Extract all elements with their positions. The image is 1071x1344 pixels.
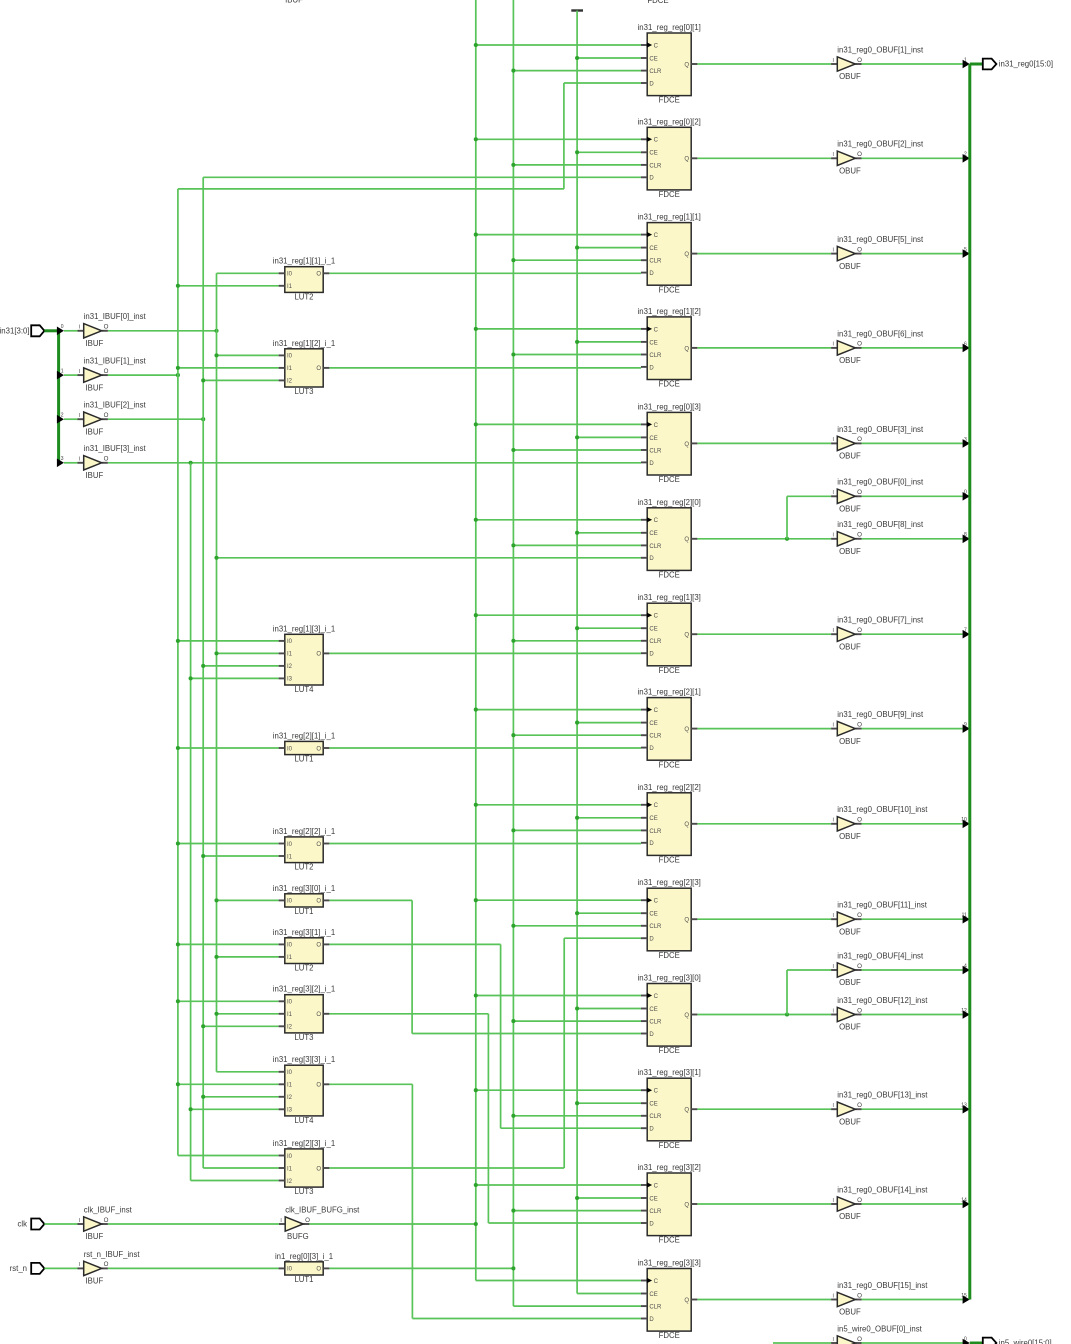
svg-text:O: O [857,1292,862,1299]
wire Q of in31_reg_reg[0][1] to OBUF [697,63,831,65]
svg-text:in31_reg0_OBUF[14]_inst: in31_reg0_OBUF[14]_inst [837,1185,928,1194]
wire Q of in31_reg_reg[0][3] to OBUF [697,442,831,444]
wire in31_reg[2][1]_i_1 O to D of in31_reg_reg[2][1] [329,747,641,749]
junction I1 in31_reg[3][3]_i_1 [176,1082,180,1086]
svg-text:in31_reg[3][2]_i_1: in31_reg[3][2]_i_1 [273,985,335,994]
wire clk to C of in31_reg_reg[0][1] [476,44,641,46]
svg-text:I: I [79,325,80,331]
svg-text:10: 10 [961,817,967,823]
svg-text:O: O [316,1083,321,1089]
buffer in31_IBUF[0]_inst IBUF [78,312,147,348]
wire clk to C of in31_reg_reg[2][2] [476,804,641,806]
wire in31_IBUF[0] to D of in31_reg_reg[2][0] [217,557,642,559]
svg-text:in31_reg0[15:0]: in31_reg0[15:0] [999,60,1053,69]
wire input I2 of in31_reg[1][2]_i_1 [203,379,278,381]
svg-text:in31_reg_reg[3][3]: in31_reg_reg[3][3] [638,1259,701,1268]
svg-text:I: I [280,1218,281,1224]
svg-text:O: O [857,57,862,64]
bus arrow bit 12 [963,1010,970,1019]
wire in31_reg[1][3]_i_1 O to D of in31_reg_reg[1][3] [329,652,641,654]
wire CE to CE of in31_reg_reg[2][2] [577,817,641,819]
svg-text:3: 3 [61,456,64,462]
svg-text:IBUF: IBUF [285,0,303,5]
svg-text:in31_reg_reg[0][3]: in31_reg_reg[0][3] [638,402,701,411]
svg-text:D: D [649,746,654,752]
svg-text:O: O [104,1217,109,1224]
svg-text:D: D [649,937,654,943]
bus arrow bit 6 [963,344,970,353]
svg-text:CE: CE [649,56,657,62]
svg-text:0: 0 [61,324,64,330]
svg-text:O: O [857,721,862,728]
wire input I0 of in31_reg[1][1]_i_1 [217,272,279,274]
buffer clk_IBUF_BUFG_inst BUFG [279,1205,360,1241]
wire input I3 of in31_reg[1][3]_i_1 [191,677,279,679]
wire Q of in31_reg_reg[3][0] to OBUF [697,1014,831,1016]
svg-text:0: 0 [964,1336,967,1342]
junction Q[3][0] split to OBUF[4] [785,1012,789,1016]
svg-text:LUT1: LUT1 [294,1275,313,1284]
svg-text:CE: CE [649,1007,657,1013]
wire in31_reg[1][1]_i_1 O to D of in31_reg_reg[1][1] [329,272,641,274]
svg-text:in31_reg_reg[3][2]: in31_reg_reg[3][2] [638,1163,701,1172]
wire CLR to CLR of in31_reg_reg[3][3] [513,1305,641,1307]
svg-text:Q: Q [684,822,689,828]
junction BUFG out / clk vertical [474,1222,478,1226]
wire input I0 of in31_reg[2][3]_i_1 [178,1155,279,1157]
junction CLR / CLR [3][1] [511,1114,515,1118]
wire OBUF[1] out to bus [862,63,963,65]
svg-text:in31_reg_reg[1][2]: in31_reg_reg[1][2] [638,307,701,316]
svg-text:OBUF: OBUF [839,262,861,271]
svg-text:O: O [857,627,862,634]
junction clk / C [0][2] [474,137,478,141]
svg-text:C: C [654,803,659,809]
svg-text:O: O [857,1336,862,1343]
svg-text:CE: CE [649,627,657,633]
svg-text:O: O [857,151,862,158]
wire in31_reg[3][2]_i_1 O route to D of in31_reg_reg[3][2] [329,1013,488,1015]
wire clk_IBUF to BUFG [108,1223,279,1225]
svg-text:CE: CE [649,246,657,252]
svg-text:I2: I2 [287,664,293,670]
LUT in31_reg[2][2]_i_1 LUT2 [273,827,335,872]
wire OBUF[0] out to bus [862,495,963,497]
svg-text:3: 3 [964,437,967,443]
svg-text:C: C [654,518,659,524]
wire CLR to CLR of in31_reg_reg[2][3] [513,925,641,927]
svg-text:LUT2: LUT2 [294,964,313,973]
wire CLR to CLR of in31_reg_reg[3][1] [513,1115,641,1117]
wire Q of in31_reg_reg[1][2] to OBUF [697,347,831,349]
svg-text:O: O [104,368,109,375]
svg-text:in31_reg0_OBUF[2]_inst: in31_reg0_OBUF[2]_inst [837,140,924,149]
svg-text:clk: clk [17,1220,27,1229]
svg-text:LUT1: LUT1 [294,907,313,916]
wire Q of in31_reg_reg[2][3] to OBUF [697,918,831,920]
flip-flop in31_reg_reg[1][1] FDCE [638,213,701,295]
svg-text:in31_reg_reg[0][2]: in31_reg_reg[0][2] [638,117,701,126]
svg-text:IBUF: IBUF [86,339,104,348]
buffer in31_reg0_OBUF[4]_inst OBUF [831,951,924,987]
bus tap arrow bit 1 [57,371,64,380]
svg-text:O: O [305,1217,310,1224]
buffer in31_reg0_OBUF[6]_inst OBUF [831,329,924,365]
wire in31_IBUF[2] vertical [202,177,204,1168]
LUT in31_reg[2][3]_i_1 LUT3 [273,1139,335,1196]
buffer in31_reg0_OBUF[11]_inst OBUF [831,901,928,937]
buffer in31_IBUF[3]_inst IBUF [78,444,147,480]
svg-text:I0: I0 [287,842,293,848]
wire clk to C of in31_reg_reg[1][2] [476,328,641,330]
junction CE / CE [2][0] [575,531,579,535]
wire in31_IBUF[1] out [108,374,178,376]
wire OBUF[2] out to bus [862,157,963,159]
svg-text:C: C [654,43,659,49]
wire clk to C of in31_reg_reg[3][2] [476,1184,641,1186]
svg-text:in31_reg0_OBUF[1]_inst: in31_reg0_OBUF[1]_inst [837,45,924,54]
wire OBUF[15] out to bus [862,1299,963,1301]
junction CE / CE [1][3] [575,626,579,630]
wire input I0 of in31_reg[3][1]_i_1 [178,943,279,945]
svg-text:IBUF: IBUF [86,1277,104,1286]
wire input I2 of in31_reg[2][3]_i_1 [191,1180,279,1182]
junction clk / C [2][1] [474,708,478,712]
svg-text:D: D [649,1127,654,1133]
svg-text:OBUF: OBUF [839,1117,861,1126]
svg-text:CE: CE [649,1292,657,1298]
svg-text:FDCE: FDCE [659,1141,680,1150]
wire input I0 of in31_reg[2][2]_i_1 [178,843,279,845]
svg-text:FDCE: FDCE [659,951,680,960]
svg-text:I0: I0 [287,1000,293,1006]
svg-text:O: O [316,272,321,278]
svg-text:in31_reg[3][0]_i_1: in31_reg[3][0]_i_1 [273,884,335,893]
svg-text:in31_reg_reg[2][1]: in31_reg_reg[2][1] [638,688,701,697]
svg-text:LUT2: LUT2 [294,863,313,872]
flip-flop in31_reg_reg[2][2] FDCE [638,783,701,865]
junction clk / C [3][0] [474,993,478,997]
svg-text:I: I [833,628,834,634]
svg-text:in31_reg0_OBUF[13]_inst: in31_reg0_OBUF[13]_inst [837,1091,928,1100]
svg-text:I: I [79,1262,80,1268]
bus arrow bit 14 [963,1200,970,1209]
svg-text:FDCE: FDCE [647,0,668,5]
svg-text:in31_reg_reg[0][1]: in31_reg_reg[0][1] [638,23,701,32]
svg-text:I: I [833,58,834,64]
wire Q of in31_reg_reg[2][2] to OBUF [697,823,831,825]
wire CE to CE of in31_reg_reg[0][3] [577,436,641,438]
bus arrow bit 11 [963,915,970,924]
wire clk port to IBUF [44,1223,77,1225]
svg-text:in31_IBUF[3]_inst: in31_IBUF[3]_inst [84,444,147,453]
wire input I0 of in31_reg[1][3]_i_1 [178,640,279,642]
junction I0 in31_reg[1][3]_i_1 [176,639,180,643]
wire CE to CE of in31_reg_reg[1][2] [577,341,641,343]
svg-text:CE: CE [649,531,657,537]
wire input I1 of in31_reg[1][2]_i_1 [178,367,279,369]
svg-text:I0: I0 [287,1070,293,1076]
bus arrow bit 4 [963,966,970,975]
junction CE / CE [1][2] [575,340,579,344]
buffer in31_reg0_OBUF[10]_inst OBUF [831,805,928,841]
svg-text:I: I [833,342,834,348]
wire CLR to CLR of in31_reg_reg[2][1] [513,734,641,736]
svg-text:D: D [649,1221,654,1227]
wire clk to C of in31_reg_reg[3][3] [476,1280,641,1282]
svg-text:I: I [79,369,80,375]
svg-text:C: C [654,1183,659,1189]
svg-text:I3: I3 [287,1108,293,1114]
input port rst_n [10,1263,45,1274]
wire Q of in31_reg_reg[1][3] to OBUF [697,633,831,635]
junction CLR / CLR [2][3] [511,924,515,928]
svg-text:rst_n: rst_n [10,1264,27,1273]
wire OBUF[14] out to bus [862,1203,963,1205]
svg-text:FDCE: FDCE [659,1046,680,1055]
wire CLR to CLR of in31_reg_reg[3][0] [513,1020,641,1022]
svg-text:rst_n_IBUF_inst: rst_n_IBUF_inst [84,1250,141,1259]
junction CE / CE [0][1] [575,56,579,60]
svg-text:I: I [833,722,834,728]
junction I0 in31_reg[3][2]_i_1 [176,999,180,1003]
svg-text:11: 11 [962,913,967,919]
svg-text:O: O [316,943,321,949]
junction I0 in31_reg[1][2]_i_1 [214,353,218,357]
wire in31_IBUF[2] out [108,418,203,420]
wire input I3 of in31_reg[3][3]_i_1 [191,1108,279,1110]
wire Q of in31_reg_reg[2][0] to OBUF [697,538,831,540]
svg-text:C: C [654,423,659,429]
svg-text:CLR: CLR [649,734,662,740]
wire rst_n port to IBUF [44,1267,77,1269]
svg-text:CLR: CLR [649,163,662,169]
wire CE to CE of in31_reg_reg[2][3] [577,912,641,914]
svg-text:I0: I0 [287,1154,293,1160]
svg-text:I3: I3 [287,677,293,683]
svg-text:I: I [833,964,834,970]
wire D[0][1] vertical [563,83,565,189]
power bar VCC tie for CE net [571,9,583,11]
svg-text:9: 9 [964,722,967,728]
wire CLR to CLR of in31_reg_reg[2][2] [513,829,641,831]
svg-text:IBUF: IBUF [86,471,104,480]
svg-text:in31_reg0_OBUF[3]_inst: in31_reg0_OBUF[3]_inst [837,425,924,434]
wire OBUF[6] out to bus [862,347,963,349]
wire clk to C of in31_reg_reg[3][1] [476,1089,641,1091]
svg-text:CLR: CLR [649,1114,662,1120]
svg-text:FDCE: FDCE [659,856,680,865]
wire in31_reg[1][2]_i_1 O to D of in31_reg_reg[1][2] [329,367,641,369]
wire in31_IBUF[1] to D of in31_reg_reg[0][1] horizontal [178,188,564,190]
junction I0 in31_reg[2][2]_i_1 [176,841,180,845]
svg-text:CE: CE [649,816,657,822]
svg-text:OBUF: OBUF [839,737,861,746]
svg-text:FDCE: FDCE [659,96,680,105]
junction I1 in31_reg[1][3]_i_1 [214,651,218,655]
svg-text:LUT1: LUT1 [294,755,313,764]
svg-text:O: O [857,341,862,348]
svg-text:in31_reg_reg[3][0]: in31_reg_reg[3][0] [638,974,701,983]
svg-text:OBUF: OBUF [839,927,861,936]
bus wire in31_reg0[15:0] vertical [968,64,971,1300]
svg-text:FDCE: FDCE [659,475,680,484]
wire Q of in31_reg_reg[1][1] to OBUF [697,253,831,255]
junction CLR / CLR [0][2] [511,163,515,167]
svg-text:O: O [857,436,862,443]
junction CLR / CLR [2][1] [511,733,515,737]
buffer in31_reg0_OBUF[2]_inst OBUF [831,140,924,176]
bus arrow bit 7 [963,630,970,639]
svg-text:OBUF: OBUF [839,356,861,365]
svg-text:CE: CE [649,1102,657,1108]
wire input I1 of in31_reg[1][3]_i_1 [217,652,279,654]
bus arrow bit 2 [963,154,970,163]
svg-text:OBUF: OBUF [839,1308,861,1317]
junction I1 in31_reg[2][2]_i_1 [201,854,205,858]
wire rst (CLR) net vertical [512,0,514,1306]
junction clk / C [1][1] [474,233,478,237]
svg-text:I0: I0 [287,746,293,752]
svg-text:in31_reg[3][1]_i_1: in31_reg[3][1]_i_1 [273,928,335,937]
LUT in31_reg[3][0]_i_1 LUT1 [273,884,335,916]
svg-text:Q: Q [684,62,689,68]
junction CLR / CLR [0][3] [511,448,515,452]
wire CE to CE of in31_reg_reg[3][1] [577,1102,641,1104]
wire CE net vertical [576,11,578,1294]
svg-text:Q: Q [684,157,689,163]
junction I2 in31_reg[1][2]_i_1 [201,378,205,382]
bus arrow bit 9 [963,724,970,733]
svg-text:I0: I0 [287,272,293,278]
svg-text:in31_reg0_OBUF[10]_inst: in31_reg0_OBUF[10]_inst [837,805,928,814]
svg-text:I2: I2 [287,1025,293,1031]
wire input I2 of in31_reg[3][2]_i_1 [203,1025,278,1027]
wire CE to CE of in31_reg_reg[2][1] [577,722,641,724]
svg-text:O: O [316,366,321,372]
svg-text:13: 13 [961,1103,967,1109]
junction clk / C [0][3] [474,422,478,426]
wire OBUF[9] out to bus [862,728,963,730]
svg-text:FDCE: FDCE [659,1331,680,1340]
junction I0 in31_reg[3][0]_i_1 [214,898,218,902]
wire Q of in31_reg_reg[3][3] to OBUF [697,1299,831,1301]
wire input I0 of in31_reg[3][2]_i_1 [178,1000,279,1002]
junction LUT1 out / CLR vertical [511,1266,515,1270]
svg-text:I: I [833,1337,834,1343]
bus arrow bit 5 [963,249,970,258]
svg-text:O: O [857,1102,862,1109]
svg-text:Q: Q [684,442,689,448]
wire clk to C of in31_reg_reg[1][3] [476,614,641,616]
svg-text:in31_reg0_OBUF[4]_inst: in31_reg0_OBUF[4]_inst [837,951,924,960]
svg-text:CLR: CLR [649,639,662,645]
buffer in31_reg0_OBUF[7]_inst OBUF [831,616,924,652]
wire OBUF[8] out to bus [862,538,963,540]
junction CLR / CLR [1][2] [511,352,515,356]
buffer in31_IBUF[2]_inst IBUF [78,401,147,437]
svg-text:LUT3: LUT3 [294,1187,313,1196]
svg-text:I: I [833,818,834,824]
svg-text:CLR: CLR [649,924,662,930]
wire OBUF[10] out to bus [862,823,963,825]
wire D[0][1] to pin [564,82,641,84]
wire OBUF[7] out to bus [862,633,963,635]
svg-text:I: I [833,490,834,496]
wire CE to CE of in31_reg_reg[3][2] [577,1197,641,1199]
svg-text:in31_reg_reg[2][2]: in31_reg_reg[2][2] [638,783,701,792]
svg-text:D: D [649,1317,654,1323]
svg-text:in31_reg_reg[2][3]: in31_reg_reg[2][3] [638,878,701,887]
svg-text:O: O [104,456,109,463]
svg-text:LUT4: LUT4 [294,1116,314,1125]
LUT in31_reg[1][3]_i_1 LUT4 [273,624,335,694]
svg-text:LUT2: LUT2 [294,293,313,302]
svg-text:in31_reg0_OBUF[7]_inst: in31_reg0_OBUF[7]_inst [837,616,924,625]
wire clk to C of in31_reg_reg[1][1] [476,234,641,236]
svg-text:C: C [654,327,659,333]
svg-text:Q: Q [684,252,689,258]
wire CE to CE of in31_reg_reg[1][3] [577,627,641,629]
svg-text:5: 5 [964,247,967,253]
svg-text:in31_reg_reg[1][1]: in31_reg_reg[1][1] [638,213,701,222]
bus wire in31[3:0] vertical [57,331,60,463]
wire clk to C of in31_reg_reg[0][2] [476,138,641,140]
svg-text:D: D [649,461,654,467]
svg-text:C: C [654,138,659,144]
buffer in31_reg0_OBUF[5]_inst OBUF [831,235,924,271]
svg-text:OBUF: OBUF [839,505,861,514]
wire CLR to CLR of in31_reg_reg[1][1] [513,259,641,261]
svg-text:O: O [857,246,862,253]
wire CE to CE of in31_reg_reg[3][3] [577,1293,641,1295]
svg-text:O: O [104,1261,109,1268]
wire clk net vertical [475,0,477,1281]
wire in1_reg[0][3]_i_1 O to CLR vertical [329,1267,513,1269]
junction clk / C [1][3] [474,613,478,617]
bus tap arrow bit 2 [57,415,64,424]
svg-text:O: O [857,1007,862,1014]
junction CE / CE [1][1] [575,246,579,250]
buffer in31_reg0_OBUF[15]_inst OBUF [831,1281,928,1317]
wire clk to C of in31_reg_reg[2][3] [476,899,641,901]
svg-text:in31_reg[2][3]_i_1: in31_reg[2][3]_i_1 [273,1139,335,1148]
wire input I1 of in31_reg[3][1]_i_1 [217,956,279,958]
svg-text:O: O [857,532,862,539]
buffer clk_IBUF_inst IBUF [78,1205,133,1241]
svg-text:CE: CE [649,1196,657,1202]
svg-text:CLR: CLR [649,1020,662,1026]
wire OBUF[11] out to bus [862,918,963,920]
junction I1 in31_reg[1][1]_i_1 [176,284,180,288]
svg-text:7: 7 [964,628,967,634]
bus tap arrow bit 0 [57,327,64,336]
svg-text:in31_reg[2][2]_i_1: in31_reg[2][2]_i_1 [273,827,335,836]
wire input I0 of in31_reg[2][1]_i_1 [178,747,279,749]
bus arrow bit 8 [963,535,970,544]
LUT in31_reg[2][1]_i_1 LUT1 [273,731,335,763]
svg-text:I1: I1 [287,1166,293,1172]
svg-text:in31[3:0]: in31[3:0] [0,327,30,336]
svg-text:CE: CE [649,340,657,346]
svg-text:in5_wire0[15:0]: in5_wire0[15:0] [999,1339,1052,1344]
svg-text:in5_wire0_OBUF[0]_inst: in5_wire0_OBUF[0]_inst [837,1324,922,1333]
buffer in5_wire0_OBUF[0]_inst OBUF (partially cropped) [831,1324,923,1344]
buffer rst_n_IBUF_inst IBUF [78,1250,141,1286]
flip-flop in31_reg_reg[2][1] FDCE [638,688,701,770]
svg-text:OBUF: OBUF [839,642,861,651]
junction clk / C [1][2] [474,327,478,331]
